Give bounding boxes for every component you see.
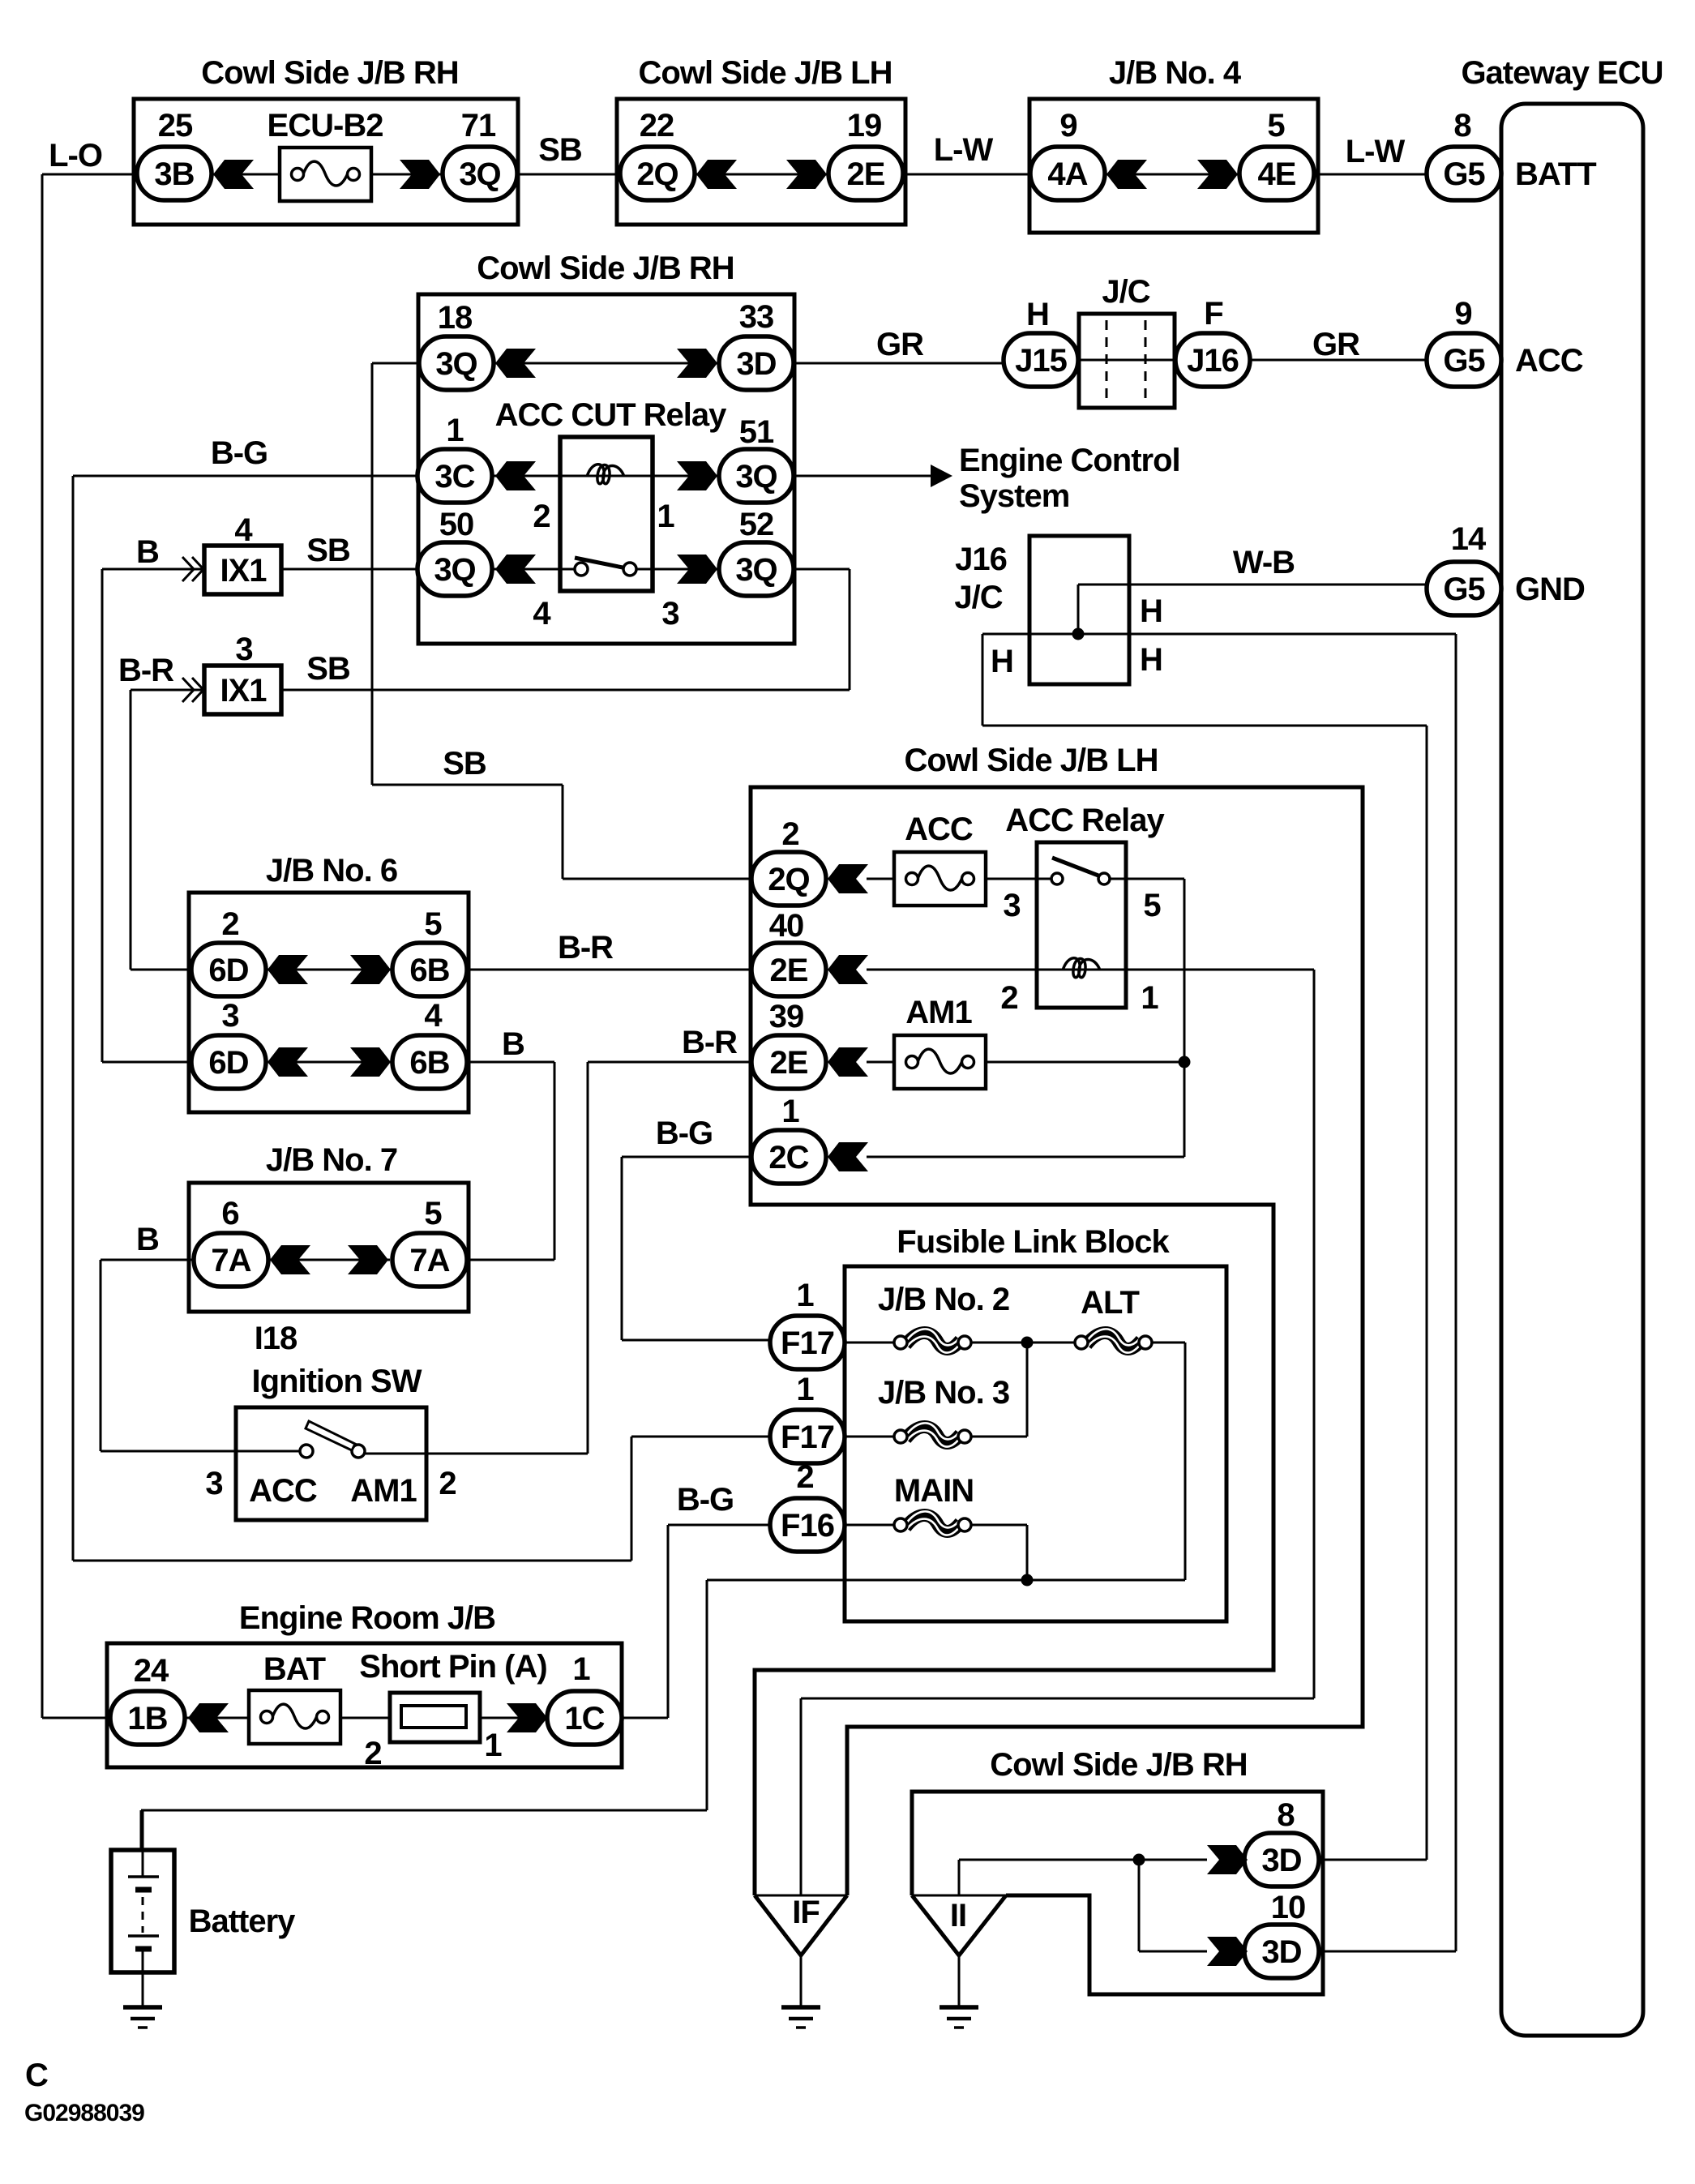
svg-text:BAT: BAT xyxy=(263,1651,326,1687)
junction dot MAIN/bottom bus xyxy=(1021,1574,1034,1587)
svg-text:ACC: ACC xyxy=(1515,343,1583,379)
pin 2E (39) xyxy=(751,1035,826,1089)
svg-text:1: 1 xyxy=(657,499,674,534)
wire to Engine Control System arrow xyxy=(790,475,931,477)
svg-text:B-R: B-R xyxy=(558,930,614,966)
wire 3D(10) right to riser xyxy=(1316,1951,1456,1953)
svg-text:BATT: BATT xyxy=(1515,156,1596,192)
svg-text:GND: GND xyxy=(1515,572,1585,607)
box Cowl Side J/B LH (top) xyxy=(617,99,905,225)
pin 6B (4) xyxy=(392,1035,467,1089)
pin 3D (10) xyxy=(1244,1925,1319,1978)
ignition switch lever xyxy=(306,1421,355,1450)
wire 3C to relay coil and 3Q(51) xyxy=(492,475,560,477)
junction dot J16 J/C xyxy=(1072,628,1085,640)
svg-text:B-G: B-G xyxy=(656,1116,713,1151)
wire internal J/B No.7 xyxy=(268,1259,390,1261)
svg-text:24: 24 xyxy=(134,1653,169,1689)
svg-text:3Q: 3Q xyxy=(459,156,500,192)
junction dot AM1/relay5 xyxy=(1179,1056,1191,1068)
svg-text:1: 1 xyxy=(796,1278,814,1313)
svg-text:SB: SB xyxy=(443,746,486,782)
svg-text:3: 3 xyxy=(661,596,678,632)
wire internal ACC Relay switch stubs xyxy=(1037,878,1054,880)
pin 3Q (51) xyxy=(719,449,794,503)
svg-text:Engine Control: Engine Control xyxy=(959,443,1180,478)
svg-text:4A: 4A xyxy=(1047,156,1087,192)
svg-text:H: H xyxy=(1026,297,1049,332)
chevron pair J/B No.7 xyxy=(270,1245,310,1274)
svg-text:7A: 7A xyxy=(211,1243,250,1278)
svg-text:2E: 2E xyxy=(770,953,808,988)
wire 3Q(50) to relay switch and 3Q(52) xyxy=(492,568,560,571)
ACC relay coil xyxy=(1063,958,1100,978)
svg-text:G02988039: G02988039 xyxy=(24,2100,144,2126)
wire 3D(8) right to riser xyxy=(1316,1859,1427,1861)
pin 3Q (50) xyxy=(417,542,492,596)
wire internal top RH box xyxy=(174,173,480,176)
svg-text:3Q: 3Q xyxy=(735,552,777,588)
svg-text:F17: F17 xyxy=(781,1325,834,1361)
svg-text:J15: J15 xyxy=(1015,343,1067,379)
box Engine Room J/B xyxy=(107,1643,622,1767)
svg-text:H: H xyxy=(1140,593,1162,629)
svg-text:1: 1 xyxy=(484,1728,502,1763)
svg-text:Engine Room J/B: Engine Room J/B xyxy=(239,1600,495,1636)
svg-text:52: 52 xyxy=(739,507,774,542)
triangle II xyxy=(912,1895,1006,1897)
svg-text:3B: 3B xyxy=(154,156,194,192)
svg-text:SB: SB xyxy=(306,651,350,687)
svg-text:B-R: B-R xyxy=(682,1025,738,1060)
svg-text:I18: I18 xyxy=(255,1321,297,1356)
svg-text:Ignition SW: Ignition SW xyxy=(252,1364,422,1399)
wire F16 MAIN link to bottom bus xyxy=(843,1524,895,1527)
pin F17 (1) J/B No.2 xyxy=(770,1316,845,1369)
wire internal J/B No.4 xyxy=(1068,173,1277,176)
wire L-W: 4E(5) to G5(8) xyxy=(1314,173,1428,176)
wire L-W: 2E(19) to 4A(9) xyxy=(903,173,1030,176)
wire internal J/B No.6 row1 xyxy=(266,969,392,971)
svg-text:3D: 3D xyxy=(1261,1843,1301,1878)
svg-text:J/B No. 4: J/B No. 4 xyxy=(1109,55,1242,91)
fusible link MAIN xyxy=(905,1515,961,1531)
svg-text:J/B No. 6: J/B No. 6 xyxy=(266,853,397,889)
svg-text:SB: SB xyxy=(538,132,582,168)
svg-text:J/C: J/C xyxy=(954,580,1002,615)
chevron pair top LH box xyxy=(696,160,737,189)
wire internal J/B No.6 row2 xyxy=(266,1061,392,1064)
fuse BAT xyxy=(249,1690,340,1744)
box Cowl Side J/B LH outline with IF ground busbars xyxy=(751,787,1363,1895)
pin 7A (5) xyxy=(392,1233,467,1287)
wire L-O net: 3B to 1B via left edge xyxy=(42,173,137,176)
svg-text:J/C: J/C xyxy=(1102,274,1149,310)
svg-text:3: 3 xyxy=(205,1466,222,1501)
pin 3D (33) xyxy=(719,336,794,390)
svg-text:B-G: B-G xyxy=(677,1482,734,1518)
svg-text:System: System xyxy=(959,478,1069,514)
relay coil ACC CUT xyxy=(587,465,624,484)
wire B net: 7A(6) to Ignition SW ACC pin3 xyxy=(101,1259,195,1261)
svg-text:J/B No. 7: J/B No. 7 xyxy=(266,1142,397,1178)
pin 6D (3) xyxy=(191,1035,266,1089)
pin 2Q (22) xyxy=(620,147,695,200)
svg-text:8: 8 xyxy=(1453,108,1471,143)
svg-text:5: 5 xyxy=(1143,888,1161,923)
svg-text:L-W: L-W xyxy=(1346,134,1406,169)
svg-text:ACC: ACC xyxy=(249,1473,317,1509)
pin 3D (8) xyxy=(1244,1833,1319,1886)
svg-text:Cowl Side J/B RH: Cowl Side J/B RH xyxy=(201,55,458,91)
fuse ACC xyxy=(894,852,986,906)
fuse AM1 xyxy=(894,1035,986,1089)
svg-text:1: 1 xyxy=(796,1372,814,1407)
wire F17 J/B No.3 link to junction xyxy=(843,1436,895,1438)
wire SB net: 3Q(52) right, down, to IX1(3) xyxy=(790,568,850,571)
pin J16 xyxy=(1175,333,1250,387)
ground IF xyxy=(800,1955,803,2007)
svg-text:ACC Relay: ACC Relay xyxy=(1005,803,1165,838)
svg-text:1: 1 xyxy=(446,413,464,448)
svg-text:6: 6 xyxy=(221,1196,238,1231)
svg-text:2E: 2E xyxy=(770,1045,808,1081)
triangle IF xyxy=(755,1895,847,1897)
svg-text:2Q: 2Q xyxy=(636,156,678,192)
svg-text:Cowl Side J/B LH: Cowl Side J/B LH xyxy=(905,743,1158,778)
svg-text:F16: F16 xyxy=(781,1508,834,1544)
wire SB: 3Q(71) to 2Q(22) xyxy=(517,173,620,176)
chevron pair 3Q50-3Q52 xyxy=(495,555,536,584)
svg-text:1C: 1C xyxy=(564,1701,604,1736)
chevron 1B(24) xyxy=(188,1703,229,1732)
svg-text:L-W: L-W xyxy=(934,132,994,168)
junction dot 3D(8)/3D(10) xyxy=(1133,1854,1145,1866)
wire B net: into IX1(4) from 6D(3) xyxy=(102,568,204,571)
svg-text:GR: GR xyxy=(876,327,924,362)
svg-text:4: 4 xyxy=(424,998,443,1034)
svg-text:ACC: ACC xyxy=(905,812,973,847)
svg-text:19: 19 xyxy=(847,108,882,143)
fusible link J/B No. 2 xyxy=(905,1333,961,1349)
svg-text:1B: 1B xyxy=(127,1701,167,1736)
svg-text:G5: G5 xyxy=(1443,156,1485,192)
pin 7A (6) xyxy=(194,1233,268,1287)
svg-text:2: 2 xyxy=(796,1459,813,1495)
svg-text:F: F xyxy=(1204,296,1222,332)
pin 3Q (18) xyxy=(419,336,494,390)
svg-text:3C: 3C xyxy=(434,459,474,495)
pin 3Q (52) xyxy=(719,542,794,596)
connector IX1 (3) xyxy=(204,666,281,714)
svg-text:Cowl Side J/B LH: Cowl Side J/B LH xyxy=(639,55,892,91)
svg-text:2: 2 xyxy=(221,906,238,942)
wire F17 J/B No.2 through fusible link to ALT junction xyxy=(843,1342,895,1344)
svg-text:ACC CUT Relay: ACC CUT Relay xyxy=(495,397,728,433)
box J/C junction connector xyxy=(1079,314,1175,408)
svg-text:2: 2 xyxy=(364,1736,381,1771)
svg-text:2: 2 xyxy=(1000,980,1017,1016)
svg-text:3: 3 xyxy=(221,998,238,1034)
svg-text:39: 39 xyxy=(769,999,804,1034)
arrow Engine Control System xyxy=(931,465,952,487)
svg-text:MAIN: MAIN xyxy=(894,1473,974,1509)
svg-text:6B: 6B xyxy=(409,1045,449,1081)
wire GR: 3D(33) to J15 xyxy=(790,362,1005,365)
svg-text:5: 5 xyxy=(424,1196,442,1231)
chevron pair top RH box xyxy=(213,160,254,189)
svg-text:7A: 7A xyxy=(409,1243,449,1278)
pin 3Q (71) xyxy=(443,147,517,200)
pin 2E (19) xyxy=(828,147,903,200)
wire II to 3D(8)/3D(10) H net xyxy=(958,1860,961,1895)
svg-text:4: 4 xyxy=(533,596,551,632)
ground battery xyxy=(123,2005,162,2010)
svg-text:1: 1 xyxy=(781,1094,799,1129)
svg-text:IF: IF xyxy=(792,1895,820,1930)
pin G5 (9) ACC xyxy=(1427,333,1501,387)
svg-text:10: 10 xyxy=(1271,1890,1306,1925)
wire 2E(39) to AM1 fuse junction xyxy=(867,1061,894,1064)
pin G5 (14) GND xyxy=(1427,562,1501,615)
svg-text:G5: G5 xyxy=(1443,343,1485,379)
svg-text:J16: J16 xyxy=(955,542,1007,577)
pin J15 xyxy=(1004,333,1078,387)
wire SB net: 3Q(18) left, down, to 2Q(2) xyxy=(372,362,422,365)
wire B-R net: 2E(39) to Ignition SW AM1 pin2 xyxy=(588,1061,753,1064)
wire ACC relay contact5 to 2C(1) xyxy=(1110,878,1184,880)
wire 2Q(2) to ACC fuse to relay contact3 xyxy=(867,878,894,880)
svg-text:W-B: W-B xyxy=(1233,545,1295,580)
box Cowl Side J/B RH (bottom) outline with II triangle xyxy=(912,1792,1323,1994)
svg-text:6B: 6B xyxy=(409,953,449,988)
svg-text:Short Pin (A): Short Pin (A) xyxy=(359,1649,546,1685)
chevron 2C(1) xyxy=(828,1142,868,1171)
svg-text:GR: GR xyxy=(1312,327,1360,362)
svg-text:B-G: B-G xyxy=(211,435,268,471)
chevron 2E(40) xyxy=(828,955,868,984)
chevron pair J/B No.6 row2 xyxy=(268,1047,308,1077)
wire internal ACC Relay coil row xyxy=(1037,969,1126,971)
wire internal ACC CUT relay switch stubs xyxy=(560,568,578,571)
svg-text:2: 2 xyxy=(781,816,798,852)
pin 4A (9) xyxy=(1030,147,1105,200)
svg-text:25: 25 xyxy=(158,108,193,143)
svg-text:B-R: B-R xyxy=(118,653,174,688)
svg-text:9: 9 xyxy=(1454,296,1471,332)
wire B net: 6B(4) to 7A(5) xyxy=(465,1061,554,1064)
wire B-G net: 3C left to F17 J/B No.3 xyxy=(73,475,421,477)
svg-text:3: 3 xyxy=(1003,888,1020,923)
box Fusible Link Block xyxy=(845,1266,1226,1621)
pin 2C (1) xyxy=(751,1130,826,1184)
pin 4E (5) xyxy=(1239,147,1314,200)
svg-text:40: 40 xyxy=(769,908,804,944)
wire SB: IX1(4) to 3Q(50) xyxy=(281,568,421,571)
pin 2Q (2) xyxy=(751,852,826,906)
svg-text:3Q: 3Q xyxy=(735,459,777,495)
svg-text:1: 1 xyxy=(572,1651,590,1687)
wire bottom bus to battery riser xyxy=(707,1579,1185,1582)
svg-text:SB: SB xyxy=(306,533,350,568)
battery xyxy=(111,1850,174,1972)
fusible link ALT xyxy=(1086,1333,1141,1349)
svg-text:3D: 3D xyxy=(736,346,776,382)
svg-text:Cowl Side J/B RH: Cowl Side J/B RH xyxy=(477,251,734,286)
wire GR: J16 to G5(9) through J/C xyxy=(1076,359,1177,362)
svg-text:Gateway ECU: Gateway ECU xyxy=(1461,55,1663,91)
svg-text:8: 8 xyxy=(1277,1797,1295,1833)
box J/B No. 6 xyxy=(189,893,469,1112)
svg-text:3Q: 3Q xyxy=(435,346,477,382)
svg-text:5: 5 xyxy=(424,906,442,942)
svg-text:14: 14 xyxy=(1451,521,1487,557)
chevron 3D(10) xyxy=(1207,1937,1248,1966)
wire internal top LH box xyxy=(657,173,866,176)
wire H: upper run to 3D(10) riser xyxy=(982,633,1456,636)
box Cowl Side J/B RH (top) xyxy=(134,99,518,225)
pin 3C (1) xyxy=(417,449,492,503)
chevron pair 3Q18-3D33 xyxy=(495,349,536,378)
svg-text:J16: J16 xyxy=(1187,343,1239,379)
wire B-R net: into IX1(3) from 6D(2) xyxy=(131,689,204,692)
svg-text:J/B No. 2: J/B No. 2 xyxy=(878,1282,1009,1317)
svg-text:9: 9 xyxy=(1059,108,1076,143)
svg-text:Battery: Battery xyxy=(189,1904,297,1939)
pin F17 (1) J/B No.3 xyxy=(770,1410,845,1463)
svg-text:51: 51 xyxy=(739,414,774,450)
pin 6B (5) xyxy=(392,943,467,996)
svg-text:J/B No. 3: J/B No. 3 xyxy=(878,1375,1009,1411)
box J16 J/C junction connector xyxy=(1029,536,1129,684)
box ACC Relay xyxy=(1037,842,1126,1008)
ACC relay switch xyxy=(1051,873,1063,884)
ignition switch contacts xyxy=(300,1445,313,1458)
fuse ECU-B2 xyxy=(280,148,371,201)
svg-text:2: 2 xyxy=(439,1466,456,1501)
svg-text:71: 71 xyxy=(461,108,496,143)
svg-text:33: 33 xyxy=(739,299,774,335)
svg-text:4: 4 xyxy=(234,512,253,548)
svg-text:G5: G5 xyxy=(1443,572,1485,607)
svg-text:2Q: 2Q xyxy=(768,862,809,897)
pin 1B (24) xyxy=(110,1691,185,1745)
svg-text:3Q: 3Q xyxy=(434,552,475,588)
svg-text:5: 5 xyxy=(1267,108,1285,143)
svg-text:Cowl Side J/B RH: Cowl Side J/B RH xyxy=(990,1747,1247,1783)
svg-text:3: 3 xyxy=(235,632,252,667)
svg-text:L-O: L-O xyxy=(49,138,102,173)
svg-text:18: 18 xyxy=(438,300,473,336)
chevron pair 3C-3Q51 xyxy=(495,461,536,490)
box ACC CUT Relay xyxy=(560,437,653,591)
chevron 1C(1) xyxy=(507,1703,547,1732)
fusible link J/B No. 3 xyxy=(905,1427,961,1443)
box J/B No. 7 xyxy=(189,1183,469,1312)
pin F16 (2) MAIN xyxy=(770,1498,845,1552)
pin G5 (8) BATT xyxy=(1427,147,1501,200)
svg-text:AM1: AM1 xyxy=(905,995,972,1030)
svg-text:IX1: IX1 xyxy=(220,553,267,589)
svg-text:6D: 6D xyxy=(208,953,248,988)
wire internal Engine Room J/B xyxy=(148,1717,584,1719)
relay switch ACC CUT xyxy=(575,563,588,576)
pin 1C (1) xyxy=(547,1691,622,1745)
wire ALT to riser xyxy=(1151,1342,1185,1344)
svg-text:IX1: IX1 xyxy=(220,673,267,709)
svg-text:2C: 2C xyxy=(768,1140,808,1176)
junction dot ALT/J/B No.3 xyxy=(1021,1337,1034,1349)
svg-text:1: 1 xyxy=(1141,980,1158,1016)
svg-text:4E: 4E xyxy=(1258,156,1296,192)
wire 2E(40) to ACC relay coil and ground riser via IF xyxy=(867,969,1037,971)
svg-text:B: B xyxy=(136,534,159,570)
pin 6D (2) xyxy=(191,943,266,996)
pin 2E (40) xyxy=(751,943,826,996)
svg-text:22: 22 xyxy=(640,108,674,143)
chevron 3D(8) xyxy=(1207,1845,1248,1874)
svg-text:6D: 6D xyxy=(208,1045,248,1081)
box Ignition SW xyxy=(236,1407,426,1520)
wire H: lower run to 3D(8) riser xyxy=(982,634,984,726)
wire W-B: J16 J/C to G5(14) xyxy=(1078,584,1428,586)
svg-text:H: H xyxy=(991,644,1013,679)
wire B-R: 6B(5) to 2E(40) xyxy=(465,969,753,971)
svg-text:ALT: ALT xyxy=(1081,1285,1139,1321)
svg-text:B: B xyxy=(502,1026,524,1062)
svg-text:ECU-B2: ECU-B2 xyxy=(268,108,383,143)
wire B-G net: 2C(1) to F17 J/B No.2 xyxy=(622,1156,753,1158)
chevron 2Q(2) xyxy=(828,864,868,893)
pin 3B (25) Cowl Side J/B RH xyxy=(137,147,212,200)
svg-text:B: B xyxy=(136,1222,159,1257)
ground II xyxy=(958,1955,961,2007)
box Gateway ECU xyxy=(1501,104,1643,2036)
svg-text:II: II xyxy=(950,1898,966,1933)
chevron pair J/B No.4 xyxy=(1106,160,1147,189)
wire internal ACC CUT relay coil row xyxy=(560,475,653,477)
box J/B No. 4 xyxy=(1029,99,1318,233)
wire B-G net: 1C to F16 xyxy=(620,1717,668,1719)
svg-text:Fusible Link Block: Fusible Link Block xyxy=(897,1224,1170,1260)
svg-text:AM1: AM1 xyxy=(350,1473,417,1509)
short pin (A) xyxy=(390,1693,480,1742)
svg-text:2E: 2E xyxy=(847,156,885,192)
chevron 2E(39) xyxy=(828,1047,868,1077)
wire 3Q(18)-3D(33) inside RH box xyxy=(492,362,721,365)
svg-text:C: C xyxy=(25,2058,48,2093)
box Cowl Side J/B RH (second) xyxy=(418,294,794,644)
svg-text:F17: F17 xyxy=(781,1420,834,1455)
svg-text:3D: 3D xyxy=(1261,1934,1301,1970)
svg-text:2: 2 xyxy=(533,499,550,534)
svg-text:H: H xyxy=(1140,642,1162,678)
chevron pair J/B No.6 row1 xyxy=(268,955,308,984)
connector IX1 (4) xyxy=(204,546,281,594)
svg-text:50: 50 xyxy=(439,507,474,542)
